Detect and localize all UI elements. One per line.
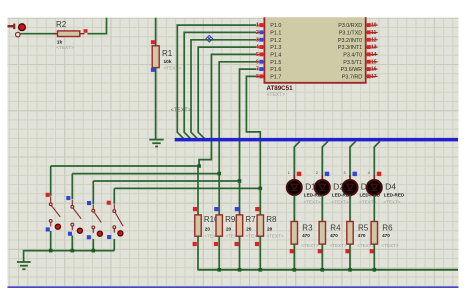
op-amp U1 AT89C51 body — [264, 17, 365, 98]
svg-text:<TEXT>: <TEXT> — [382, 243, 399, 248]
blue diamond marker — [206, 35, 213, 42]
pin state square SW4 top — [107, 201, 111, 205]
wire D2 to R4 — [321, 195, 323, 222]
node B junction — [217, 172, 221, 176]
wire R7 to rail — [239, 236, 241, 270]
wire SW4 to node D — [114, 187, 260, 189]
svg-text:<TEXT>: <TEXT> — [304, 200, 321, 205]
svg-text:20: 20 — [205, 226, 211, 231]
svg-text:P3.3/INT1: P3.3/INT1 — [338, 45, 362, 51]
svg-text:3: 3 — [256, 37, 259, 43]
pin state square R9 top — [214, 207, 218, 211]
pin state square R10 bottom — [193, 242, 197, 246]
rail junction — [238, 268, 242, 272]
wire bus to D3 — [350, 141, 356, 179]
switch SW4 — [113, 204, 123, 233]
wire top edge to R1 — [155, 18, 157, 46]
pin state square R1 top (red) — [151, 40, 155, 44]
svg-text:11: 11 — [371, 30, 377, 36]
ground rail wire — [24, 251, 115, 262]
svg-text:<TEXT>: <TEXT> — [384, 200, 401, 205]
pin 17 P3.7/RD — [342, 74, 378, 80]
svg-text:7: 7 — [256, 67, 259, 73]
svg-text:P1.6: P1.6 — [270, 67, 281, 73]
wire R6 to rail — [373, 244, 375, 270]
resistor R6 — [371, 222, 399, 248]
pin state square R10 top — [193, 207, 197, 211]
pin 4 P1.3 — [256, 45, 281, 51]
rail junction — [321, 268, 325, 272]
svg-text:10k: 10k — [164, 59, 172, 65]
svg-text:20: 20 — [267, 226, 273, 231]
switch SW2 toggle dot — [77, 228, 82, 233]
wire R4 to rail — [321, 244, 323, 270]
svg-text:20: 20 — [226, 226, 232, 231]
resistor R2 — [53, 20, 85, 51]
partial switch SW0 (cut off at left edge) — [8, 24, 26, 31]
pin state square R7 top — [235, 207, 239, 211]
svg-text:R9: R9 — [225, 215, 236, 224]
svg-text:12: 12 — [371, 37, 377, 43]
pin state square R8 top — [255, 207, 259, 211]
pin state square R3 bottom — [290, 249, 294, 253]
svg-text:6: 6 — [256, 59, 259, 65]
svg-text:LED-RED: LED-RED — [384, 192, 405, 197]
svg-text:8: 8 — [256, 74, 259, 80]
pin state square SW3 bottom — [87, 235, 91, 239]
wire node to R10 — [197, 166, 199, 215]
label D1 — [304, 182, 325, 205]
LED D1 — [287, 175, 302, 200]
pin state square SW3 top — [87, 201, 91, 205]
wire bus to D2 — [322, 141, 328, 179]
svg-text:3: 3 — [344, 171, 346, 175]
pin state square D4 top — [377, 172, 381, 176]
switch SW1 toggle dot — [55, 224, 60, 229]
svg-text:P3.0/RXD: P3.0/RXD — [338, 23, 362, 29]
rail junction — [293, 268, 297, 272]
svg-text:470: 470 — [358, 233, 366, 238]
svg-text:<TEXT>: <TEXT> — [164, 65, 182, 71]
svg-text:13: 13 — [371, 45, 377, 51]
svg-text:1: 1 — [256, 23, 259, 29]
rail junction — [92, 249, 96, 253]
wire R9 to rail — [218, 236, 220, 270]
svg-text:16: 16 — [371, 67, 377, 73]
wire SW4 to ground rail — [113, 239, 115, 251]
pin 5 P1.4 — [256, 52, 281, 58]
wire R8 to rail — [259, 236, 261, 270]
label D3 — [359, 182, 380, 205]
switch SW1 — [49, 196, 60, 226]
terminal node (open circle) — [15, 32, 20, 37]
pin 8 P1.7 — [256, 74, 281, 80]
svg-text:<TEXT>: <TEXT> — [330, 243, 347, 248]
resistor R9 — [216, 215, 243, 238]
rail junction — [217, 268, 221, 272]
svg-text:1k: 1k — [57, 39, 63, 45]
svg-text:P1.7: P1.7 — [270, 74, 281, 80]
svg-text:17: 17 — [371, 74, 377, 80]
svg-text:P3.2/INT0: P3.2/INT0 — [338, 38, 362, 44]
pin 12 P3.2/INT0 — [338, 37, 378, 43]
svg-text:P3.4/T0: P3.4/T0 — [343, 52, 362, 58]
sheet border line — [8, 286, 459, 288]
wire terminal to R2 — [20, 33, 57, 35]
LED D3 — [343, 175, 358, 200]
svg-text:P1.2: P1.2 — [270, 38, 281, 44]
pin 13 P3.3/INT1 — [338, 45, 378, 51]
svg-text:R8: R8 — [266, 215, 277, 224]
wire R5 to rail — [349, 244, 351, 270]
wire P1.2 to bus — [191, 40, 256, 139]
pin state square SW1 top — [46, 193, 50, 197]
wire node to R9 — [218, 174, 220, 216]
wire bus to D1 — [294, 141, 300, 179]
LED D4 — [367, 175, 382, 200]
svg-text:R4: R4 — [330, 224, 341, 233]
wire SW2 to ground rail — [71, 236, 73, 251]
pin state square D2 top — [325, 172, 329, 176]
wire P1.4 to node A (R10/SW1 net) — [199, 54, 256, 166]
svg-text:R6: R6 — [382, 224, 393, 233]
wire D1 to R3 — [293, 195, 295, 222]
rail junction — [49, 249, 53, 253]
pin state square R1 bottom (blue) — [151, 68, 155, 72]
pin state square SW4 bottom — [107, 235, 111, 239]
node A junction — [197, 164, 201, 168]
pin 10 P3.0/RXD — [338, 23, 377, 29]
resistor R1 — [152, 46, 181, 72]
resistor R4 — [319, 222, 347, 248]
wire P1.6 to node C (R7/SW3 net) — [240, 69, 257, 181]
wire D4 to R6 — [373, 195, 375, 222]
pin 16 P3.6/WR — [341, 67, 378, 73]
svg-text:4: 4 — [256, 45, 259, 51]
resistor R3 — [291, 222, 319, 248]
pin 2 P1.1 — [256, 30, 281, 36]
svg-text:15: 15 — [371, 59, 377, 65]
node C junction — [238, 179, 242, 183]
resistor R5 — [347, 222, 375, 248]
svg-text:R3: R3 — [302, 224, 313, 233]
svg-text:20: 20 — [246, 226, 252, 231]
wire to SW2 top — [71, 174, 73, 199]
pin state square R8 bottom — [255, 242, 259, 246]
pin state square R5 bottom — [345, 249, 349, 253]
wire D3 to R5 — [349, 195, 351, 222]
pin state square D3 top — [353, 172, 357, 176]
LED D2 — [315, 175, 330, 200]
wire P1.3 to bus — [198, 47, 256, 139]
label D2 — [332, 182, 353, 205]
wire P1.0 to bus — [177, 25, 256, 139]
pin state square R6 bottom — [370, 249, 374, 253]
wire P1.7 to node D (R8/SW4 net) — [246, 76, 260, 188]
wire node to R8 — [259, 188, 261, 215]
svg-text:470: 470 — [382, 233, 390, 238]
rail junction — [373, 268, 377, 272]
pin state square R7 bottom — [235, 242, 239, 246]
svg-text:<TEXT>: <TEXT> — [267, 92, 286, 98]
switch SW3 toggle dot — [97, 231, 102, 236]
svg-text:<TEXT>: <TEXT> — [267, 233, 284, 238]
resistor R7 — [236, 215, 263, 238]
svg-text:2: 2 — [256, 30, 259, 36]
svg-text:<TEXT>: <TEXT> — [56, 45, 74, 51]
wire SW3 to node C — [93, 180, 239, 182]
wire bus to D4 — [374, 141, 380, 179]
svg-text:R7: R7 — [245, 215, 256, 224]
pin state square SW2 bottom — [68, 232, 72, 236]
rail junction — [71, 249, 75, 253]
pin 11 P3.1/TXD — [339, 30, 378, 36]
wire to SW3 top — [92, 181, 94, 204]
wire P1.1 to bus — [184, 32, 256, 139]
svg-text:10: 10 — [371, 23, 377, 29]
svg-text:AT89C51: AT89C51 — [267, 85, 294, 92]
switch SW2 — [71, 200, 81, 231]
resistor R10 — [195, 215, 222, 238]
node D junction — [259, 187, 263, 191]
wire R1 to ground — [155, 68, 157, 140]
svg-text:14: 14 — [371, 52, 377, 58]
pin 15 P3.5/T1 — [343, 59, 377, 65]
ground symbol (R1 net) — [149, 140, 163, 147]
svg-text:P1.3: P1.3 — [270, 45, 281, 51]
wire R3 to rail — [293, 244, 295, 270]
svg-text:P3.5/T1: P3.5/T1 — [343, 60, 362, 66]
pin state square R2 right (red) — [84, 29, 88, 33]
svg-text:D4: D4 — [385, 182, 396, 192]
svg-text:P1.1: P1.1 — [270, 30, 281, 36]
pin 6 P1.5 — [256, 59, 281, 65]
wire R10 to rail — [197, 236, 199, 270]
svg-text:R1: R1 — [162, 49, 173, 58]
svg-text:<TEXT>: <TEXT> — [332, 200, 349, 205]
wire P1.5 to node B (R9/SW2 net) — [219, 62, 256, 174]
svg-text:R5: R5 — [358, 224, 369, 233]
pin 14 P3.4/T0 — [343, 52, 377, 58]
label D4 — [384, 182, 405, 205]
svg-text:2: 2 — [316, 171, 318, 175]
wire R2 to top edge — [87, 18, 106, 34]
svg-text:P1.5: P1.5 — [270, 60, 281, 66]
wire SW2 to node B — [72, 173, 219, 175]
svg-text:P1.0: P1.0 — [270, 23, 281, 29]
svg-text:<TEXT>: <TEXT> — [171, 108, 191, 114]
pin 1 P1.0 — [256, 23, 281, 29]
svg-text:470: 470 — [330, 233, 338, 238]
wire to SW4 top — [113, 188, 115, 203]
ground symbol (switch rail) — [17, 262, 31, 269]
wire SW1 to node A — [51, 165, 199, 167]
bottom rail wire — [198, 269, 458, 271]
svg-text:P3.6/WR: P3.6/WR — [341, 67, 363, 73]
bus — [175, 138, 458, 142]
pin state square SW2 top — [66, 196, 70, 200]
pin state square R9 bottom — [214, 242, 218, 246]
svg-text:1: 1 — [288, 171, 290, 175]
svg-text:R2: R2 — [56, 20, 67, 29]
rail junction — [259, 268, 263, 272]
rail junction — [348, 268, 352, 272]
wire SW1 to ground rail — [50, 231, 52, 251]
pin state square R4 bottom — [318, 249, 322, 253]
svg-text:4: 4 — [368, 171, 370, 175]
switch SW4 toggle dot — [118, 231, 123, 236]
pin 3 P1.2 — [256, 37, 281, 43]
wire to SW1 top — [50, 166, 52, 196]
svg-text:P3.1/TXD: P3.1/TXD — [339, 30, 362, 36]
switch SW3 — [92, 205, 101, 233]
wire node to R7 — [239, 181, 241, 215]
svg-text:P1.4: P1.4 — [270, 52, 281, 58]
svg-text:P3.7/RD: P3.7/RD — [342, 74, 362, 80]
resistor R8 — [257, 215, 284, 238]
pin 7 P1.6 — [256, 67, 281, 73]
pin state square SW1 bottom — [46, 227, 50, 231]
wire SW3 to ground rail — [92, 239, 94, 251]
svg-text:5: 5 — [256, 52, 259, 58]
svg-text:470: 470 — [302, 233, 310, 238]
svg-text:<TEXT>: <TEXT> — [302, 243, 319, 248]
pin state square D1 top — [297, 172, 301, 176]
